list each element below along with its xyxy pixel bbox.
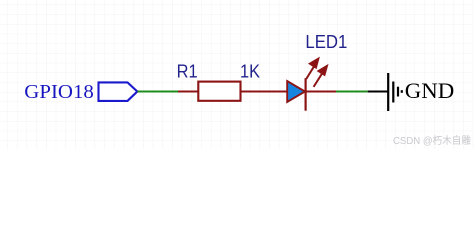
svg-text:GND: GND xyxy=(405,78,455,103)
svg-text:CSDN @朽木自雕: CSDN @朽木自雕 xyxy=(393,134,471,147)
pin resistor right lead to LED xyxy=(242,91,288,93)
resistor R1 xyxy=(198,82,240,101)
LED LED1 triangle xyxy=(287,81,305,102)
ground bar 3 xyxy=(397,87,399,97)
svg-text:GPIO18: GPIO18 xyxy=(24,81,94,103)
pin resistor left lead xyxy=(178,91,198,93)
ground bar 1 xyxy=(387,73,389,111)
port GPIO18 xyxy=(99,82,138,101)
pin LED right lead xyxy=(307,91,337,93)
wire LED to GND xyxy=(336,91,368,93)
svg-text:1K: 1K xyxy=(240,62,260,82)
LED emission arrow 2 xyxy=(314,66,327,87)
svg-text:R1: R1 xyxy=(177,62,198,82)
ground lead xyxy=(368,91,389,93)
ground bar 2 xyxy=(392,82,394,103)
LED emission arrow 1 xyxy=(306,59,318,79)
LED cathode bar xyxy=(305,78,307,111)
svg-text:LED1: LED1 xyxy=(305,32,347,52)
ground bar 4 xyxy=(401,90,403,93)
wire port to resistor xyxy=(138,91,179,93)
